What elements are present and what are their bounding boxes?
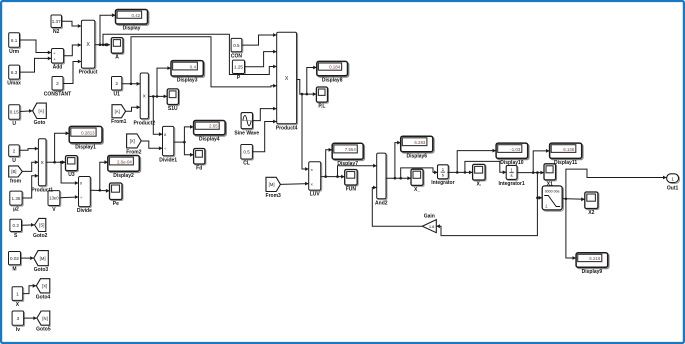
from tag From3 [266,177,282,199]
constant µ2 [10,191,23,213]
scope Pe [110,183,124,207]
wire U1 to Product4 in4 [131,37,277,88]
constant S [10,219,23,239]
display Display [116,10,149,32]
svg-text:2: 2 [13,148,16,154]
filter block [542,186,563,211]
wire CL to Product4 [252,120,276,152]
wire S to Goto2 [22,223,35,227]
divide Divide [77,177,92,215]
wire Integrator1 out to filter [536,173,542,200]
svg-text:CON: CON [231,53,243,59]
sum Add [51,49,64,71]
svg-text:5.216: 5.216 [589,256,601,261]
svg-text:0.2: 0.2 [13,223,20,228]
wire U1 to Product2 [122,82,140,86]
wire P to Product4 in2 [245,50,277,67]
wire Product1 out to Divide [61,162,78,185]
svg-text:s: s [511,173,513,178]
goto tag Goto [33,103,47,126]
wire From3 to LUV [280,182,308,186]
svg-text:6.3: 6.3 [11,70,18,75]
svg-text:2.6e-04: 2.6e-04 [117,159,132,164]
svg-text:x: x [311,182,313,187]
wire AND out to Display6 [395,141,401,179]
constant X [12,287,24,308]
wire Product4 out to Display8 [307,66,317,95]
wire from[B] to Product1 [22,160,38,171]
constant CON [231,38,243,59]
wire Product out up to Display [100,13,116,44]
svg-text:Out1: Out1 [667,186,679,192]
svg-text:[M]: [M] [40,256,46,261]
wire AND out to scope X_ [386,176,411,180]
from tag From2 [126,134,142,155]
svg-text:Display9: Display9 [582,269,603,275]
constant U [9,105,21,127]
svg-text:1.35: 1.35 [12,196,21,201]
wire Product2 out to Divide1 [153,96,162,136]
product And2 [375,153,388,206]
svg-text:1.25: 1.25 [234,65,243,70]
svg-text:Goto4: Goto4 [36,294,51,300]
goto tag Goto4 [36,279,51,301]
scope U3 [66,156,79,179]
wire filter out to Display9 [566,199,576,260]
svg-text:[A]: [A] [39,109,44,114]
svg-text:P.L: P.L [318,104,325,110]
svg-text:0.5: 0.5 [233,43,240,48]
constant U [9,145,21,164]
svg-text:S1U: S1U [168,106,178,112]
wire mu2 to Product1 [22,174,38,198]
scope P.L [316,87,328,110]
wire Divide out to Display2 [100,160,108,190]
svg-text:Iv: Iv [16,327,20,333]
svg-text:Integrator1: Integrator1 [499,181,525,187]
display Display2 [108,156,141,179]
svg-text:Sine Wave: Sine Wave [234,131,259,137]
svg-text:M: M [12,266,16,272]
svg-text:1: 1 [671,176,674,181]
constant Iv [12,311,25,333]
wire Gain out to AND [372,186,422,227]
svg-text:Pe: Pe [113,201,119,207]
constant Umax [7,65,21,87]
svg-text:Display1: Display1 [75,144,96,150]
constant P [232,60,245,81]
svg-text:6.1: 6.1 [11,38,18,43]
constant CONSTANT [44,77,71,98]
source Sine Wave [234,113,259,137]
wire Integrator1 out to scope X1 [517,171,545,175]
wire From2 to Divide1 [141,141,162,150]
svg-text:U: U [12,121,16,127]
svg-text:Divide: Divide [77,208,92,214]
svg-text:[A]: [A] [115,109,120,114]
scope S1U [167,89,179,112]
constant U1 [112,77,123,98]
wire Product2 out to scope S1U [148,95,167,99]
scope X1 [544,164,557,188]
wire Product1 out to Display1 [55,131,70,162]
from tag from [9,166,23,185]
svg-text:[X]: [X] [42,284,47,289]
svg-text:[B]: [B] [11,169,16,174]
svg-text:1.37: 1.37 [52,19,61,24]
svg-text:Display10: Display10 [500,160,524,166]
svg-text:Display2: Display2 [113,173,134,179]
svg-text:3: 3 [17,316,20,322]
from tag From1 [111,105,127,126]
svg-text:U1: U1 [113,92,120,98]
wire CON to Product4 in1 [242,33,277,45]
svg-text:Goto2: Goto2 [33,233,48,239]
display Display11 [550,143,583,166]
svg-text:0.42: 0.42 [132,13,141,18]
wire filter out to scope X2 [562,197,585,201]
svg-text:7.554: 7.554 [345,147,357,152]
wire Umax to Add [20,57,52,73]
svg-text:0000 00e: 0000 00e [545,190,560,194]
display Display10 [496,143,529,166]
display Display9 [576,253,609,275]
integrator Integrator1 [499,165,525,186]
svg-text:Gain: Gain [424,213,435,219]
svg-text:Add: Add [53,65,63,71]
scope X_ [411,169,424,193]
svg-text:0.2813: 0.2813 [81,131,95,136]
wire X to Goto4 [23,284,37,294]
wire Add to Product [64,43,82,56]
svg-text:Product1: Product1 [31,187,53,193]
svg-text:X: X [41,160,44,165]
wire LUV out to scope FUN [321,175,345,179]
wire Integrator out to scope X. [447,171,472,175]
svg-text:Umax: Umax [7,81,21,87]
svg-text:6.146: 6.146 [563,147,575,152]
svg-text:A: A [115,55,119,61]
svg-text:From3: From3 [266,193,282,199]
svg-text:Product: Product [79,70,98,76]
svg-text:FUN: FUN [346,186,357,192]
product Product1 [31,139,53,194]
wire Product out to Product4 in3 [103,34,277,74]
svg-text:Goto: Goto [34,120,46,126]
svg-text:⇩: ⇩ [544,204,548,209]
wire filter out to Out1 [566,169,667,199]
wire Product2 out to Display3 [157,66,171,96]
svg-text:Goto3: Goto3 [34,267,49,273]
constant N2 [51,15,63,35]
wire Divide out to scope Pe [90,189,109,193]
svg-text:X_: X_ [414,187,420,193]
scope X. [473,164,487,187]
display Display3 [171,61,205,84]
svg-text:2.65: 2.65 [209,124,218,129]
integrator Integrator [431,165,454,186]
svg-text:Display: Display [123,26,141,32]
wire N2 to Product [62,21,82,28]
wire LUV out to AND [338,164,377,177]
svg-text:Product2: Product2 [133,120,155,126]
svg-text:[M]: [M] [269,182,275,187]
product Product4 [276,32,298,131]
display Display8 [317,61,349,83]
svg-text:Divide1: Divide1 [159,157,177,163]
gain Gain [422,213,436,232]
svg-text:X: X [143,94,146,99]
svg-text:µ2: µ2 [13,207,19,213]
svg-text:0.15: 0.15 [10,110,19,115]
product LUV [309,162,322,198]
constant CL [241,145,254,167]
svg-text:CONSTANT: CONSTANT [44,92,71,98]
svg-text:1: 1 [16,291,19,297]
wire Product4 out down to LUV [302,94,309,171]
svg-text:-1.03: -1.03 [510,147,521,152]
wire Integrator out to Integrator1 [465,161,506,174]
wire Urm to Add [20,40,52,54]
wire From1 to Product2 [126,105,141,111]
svg-text:[N]: [N] [42,316,47,321]
svg-text:[S]: [S] [39,223,44,228]
svg-text:LUV: LUV [310,192,321,198]
svg-text:Goto5: Goto5 [36,327,51,333]
svg-text:Fd: Fd [196,165,202,171]
display Display6 [401,136,434,159]
display Display1 [69,126,103,150]
svg-text:Display4: Display4 [199,136,220,142]
svg-text:And2: And2 [375,200,388,206]
wire Sine Wave to Product4 [253,107,277,121]
scope Fd [194,149,206,172]
product Product [79,20,98,75]
svg-text:13e0: 13e0 [49,196,59,201]
svg-text:Display6: Display6 [407,153,428,159]
svg-text:from: from [10,178,22,184]
display Display7 [332,143,364,167]
wire AND out to Integrator [401,168,438,178]
svg-text:Display8: Display8 [322,77,343,83]
svg-text:X: X [86,42,90,48]
svg-text:From1: From1 [111,119,127,125]
wire CONSTANT to Product [63,60,81,84]
svg-text:U3: U3 [68,172,75,178]
svg-text:X.: X. [477,181,482,187]
svg-text:0.02: 0.02 [10,256,19,261]
outport Out1 [667,174,680,192]
svg-text:X: X [285,76,289,82]
wire U const to Product1 [19,147,38,151]
wire Iv to Goto5 [24,316,37,320]
svg-text:X2: X2 [588,210,594,216]
wire Product4 out to scope P.L [297,80,317,97]
wire Integrator out to Display10 [457,149,496,173]
constant V [48,191,61,214]
wire LUV out to Display7 [326,148,333,177]
wire Integrator1 out to Display11 [533,149,549,173]
constant Urm [9,33,21,55]
wire U to Goto [20,109,33,113]
svg-text:0.184: 0.184 [329,65,341,70]
svg-text:From2: From2 [126,149,142,155]
scope A [111,38,124,61]
svg-text:N2: N2 [53,29,60,35]
svg-text:[X]: [X] [130,139,135,144]
scope X2 [585,192,599,216]
divide Divide1 [159,126,177,163]
svg-text:x: x [311,167,313,172]
scope FUN [345,170,359,193]
svg-text:0.4: 0.4 [190,64,197,69]
svg-text:U: U [12,158,16,164]
wire Product out to scope A [95,43,110,47]
goto tag Goto2 [33,218,48,239]
product Product2 [133,73,155,126]
wire M to Goto3 [21,256,34,260]
svg-text:Product4: Product4 [276,125,298,131]
wire V to Divide [60,195,79,199]
wire feedback to Gain [436,198,537,236]
svg-text:CL: CL [243,161,250,167]
svg-text:2: 2 [115,81,118,87]
display Display4 [194,121,227,143]
svg-text:Display3: Display3 [177,78,198,84]
wire Product1 out to scope U3 [46,160,66,164]
svg-text:0.5: 0.5 [243,149,250,154]
svg-text:Integrator: Integrator [431,180,454,186]
svg-text:Urm: Urm [9,49,20,55]
svg-text:s: s [442,172,444,177]
svg-text:Display11: Display11 [554,160,577,166]
svg-text:1.8: 1.8 [429,224,435,229]
svg-text:2: 2 [56,81,59,87]
constant M [9,252,22,273]
svg-text:6.283: 6.283 [414,140,426,145]
goto tag Goto5 [36,311,51,333]
goto tag Goto3 [34,251,49,274]
wire Divide1 out to Display4 [174,125,194,143]
wire Divide1 out to scope Fd [184,142,193,157]
